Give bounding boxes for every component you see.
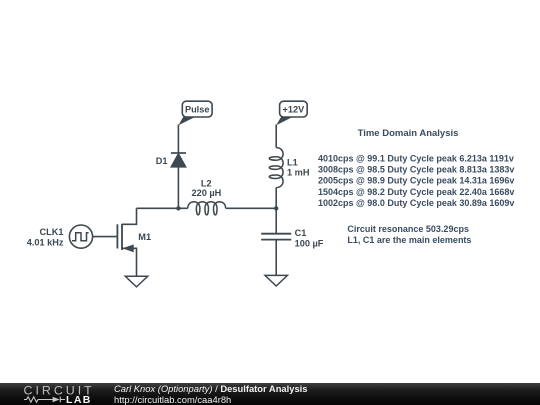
wire clock to gate [93,236,118,238]
wire main horizontal left [137,207,188,209]
svg-text:Circuit resonance 503.29cps: Circuit resonance 503.29cps [347,224,469,234]
flag Pulse [178,101,212,125]
flag +12V [276,101,307,125]
footer bar [0,383,540,405]
svg-text:L1, C1 are the main elements: L1, C1 are the main elements [347,235,471,245]
svg-text:4.01 kHz: 4.01 kHz [27,238,64,248]
svg-text:C1: C1 [295,228,307,238]
wire main horizontal right [226,207,277,209]
svg-text:100 µF: 100 µF [295,238,324,248]
wire L1 to junction [275,188,277,209]
inductor L1 [269,148,283,188]
svg-text:4010cps @ 99.1 Duty Cycle peak: 4010cps @ 99.1 Duty Cycle peak 6.213a 11… [318,153,514,163]
svg-text:+12V: +12V [283,105,306,115]
wire junction to C1 [275,208,277,233]
clock source CLK1 [69,225,92,248]
credit text [114,383,308,405]
svg-text:1504cps @ 98.2 Duty Cycle peak: 1504cps @ 98.2 Duty Cycle peak 22.40a 16… [318,187,514,197]
svg-text:3008cps @ 98.5 Duty Cycle peak: 3008cps @ 98.5 Duty Cycle peak 8.813a 13… [318,165,514,175]
svg-text:M1: M1 [138,232,151,242]
wire source to ground [122,248,137,276]
node junction dot left [176,206,180,210]
transistor M1 NMOS [117,224,133,252]
svg-text:220 µH: 220 µH [191,188,221,198]
svg-text:1002cps @ 98.0 Duty Cycle peak: 1002cps @ 98.0 Duty Cycle peak 30.89a 16… [318,198,514,208]
svg-text:L1: L1 [287,157,298,167]
ground below M1 [125,276,147,287]
wire pulse tail to diode [177,125,179,154]
wire +12V tail to L1 [275,125,277,148]
node junction dot right [274,206,278,210]
wire diode to junction [177,167,179,209]
svg-text:2005cps @ 98.9 Duty Cycle peak: 2005cps @ 98.9 Duty Cycle peak 14.31a 16… [318,176,514,186]
svg-text:LAB: LAB [66,394,92,405]
wire drain riser [122,208,137,224]
ground below C1 [265,275,287,286]
svg-text:Time Domain Analysis: Time Domain Analysis [358,128,459,139]
svg-text:D1: D1 [156,156,168,166]
diode D1 [171,153,186,167]
svg-text:1 mH: 1 mH [287,168,310,178]
logo CircuitLab [0,383,110,405]
inductor L2 [188,202,226,215]
svg-text:CLK1: CLK1 [40,227,64,237]
capacitor C1 [261,234,291,240]
wire C1 to ground [275,240,277,276]
svg-text:Pulse: Pulse [185,105,210,115]
